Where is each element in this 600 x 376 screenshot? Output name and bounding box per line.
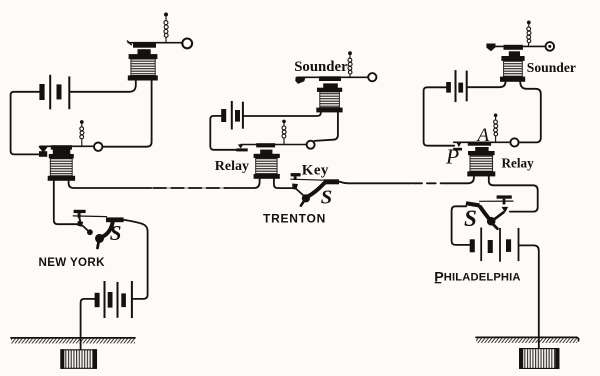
svg-text:NEW YORK: NEW YORK bbox=[39, 256, 106, 269]
battery B5 (Philadelphia main), cell plates bbox=[470, 228, 520, 262]
relay (New York) armature bar bbox=[51, 145, 72, 149]
key K3 (Philadelphia) knob bbox=[497, 195, 512, 198]
relay (Philadelphia) armature lever bbox=[454, 141, 511, 143]
relay (Trenton) armature bar bbox=[256, 143, 275, 147]
wire: Phila sounder left terminal to Phila local battery bbox=[468, 82, 506, 87]
svg-text:Relay: Relay bbox=[215, 159, 249, 174]
main line New York-Trenton faded underlay bbox=[152, 187, 225, 189]
key K1 (New York) lever heel wedge bbox=[79, 217, 80, 221]
sounder (Philadelphia) retractile-spring anchor dot bbox=[527, 21, 531, 25]
relay (New York) armature lever bbox=[40, 145, 94, 147]
relay (Philadelphia) retractile-spring anchor dot bbox=[494, 114, 498, 118]
switch S (Philadelphia) circuit-closer arm bbox=[480, 207, 489, 219]
sounder (Philadelphia) lever hinge bracket bbox=[486, 44, 495, 52]
svg-text:Sounder: Sounder bbox=[294, 59, 348, 75]
relay (Trenton) coil bottom flange bbox=[254, 174, 280, 179]
sounder (Trenton) coil bottom flange bbox=[316, 108, 342, 113]
wire: Trenton relay coil to Trenton key bbox=[274, 179, 293, 188]
sounder (New York) coil bottom flange bbox=[128, 75, 158, 80]
relay (Trenton) armature hinge post bbox=[236, 148, 247, 151]
sounder (Philadelphia) core pole piece bbox=[509, 51, 520, 56]
relay (Philadelphia) coil top flange bbox=[468, 151, 495, 155]
relay (Trenton) hinge triangle bbox=[238, 144, 244, 148]
sounder (Philadelphia) coil winding bbox=[504, 61, 523, 77]
relay (New York) hinge triangle bbox=[38, 146, 48, 152]
key K3 (Philadelphia) trunnion triangle bbox=[502, 207, 509, 213]
sounder (Trenton) core pole piece bbox=[323, 83, 338, 89]
wire: NY main battery to earth plate bbox=[81, 299, 95, 350]
battery B4 (Philadelphia local), cell plates bbox=[446, 70, 468, 102]
switch S (Philadelphia) contact block bbox=[466, 201, 480, 207]
switch S (New York) circuit-closer arm bbox=[101, 223, 113, 238]
svg-text:TRENTON: TRENTON bbox=[263, 211, 326, 225]
sounder (Philadelphia) armature bar bbox=[504, 45, 523, 50]
key K2 (Trenton) pivot dot bbox=[302, 194, 310, 202]
svg-text:S: S bbox=[464, 206, 477, 231]
sounder (New York) coil top flange bbox=[129, 54, 158, 59]
sounder (New York) armature lever bbox=[128, 42, 182, 44]
earth plate (New York) bbox=[61, 350, 97, 369]
main line Trenton-Philadelphia dashed span bbox=[413, 182, 446, 184]
relay (Trenton) coil winding bbox=[256, 158, 277, 174]
svg-text:Key: Key bbox=[302, 163, 329, 179]
wire: NY relay coil to main line east bbox=[69, 181, 153, 188]
key K2 (Trenton) knob bbox=[291, 173, 301, 176]
switch S (Trenton) circuit-closer arm bbox=[307, 183, 324, 197]
switch S (Trenton) contact block bbox=[324, 179, 339, 184]
wire: NY switch contact block to NY main battery bbox=[124, 220, 148, 299]
earth surface line (New York) bbox=[11, 337, 135, 339]
sounder (Trenton) coil winding bbox=[320, 92, 340, 108]
sounder (New York) armature bar bbox=[133, 43, 156, 48]
relay (New York) front contact ring bbox=[94, 143, 102, 151]
key K2 (Trenton) lever heel wedge bbox=[292, 184, 298, 190]
key K1 (New York) lever arm bbox=[83, 226, 88, 230]
relay (New York) retractile spring bbox=[80, 124, 84, 146]
wire: NY relay coil to NY key lever bbox=[54, 181, 78, 224]
battery B2 (New York main), cell plates bbox=[95, 281, 133, 318]
sounder (Philadelphia) coil bottom flange bbox=[500, 77, 525, 82]
key K2 (Trenton) lever arm bbox=[297, 189, 304, 195]
svg-text:P: P bbox=[445, 144, 459, 168]
earth surface hatching (New York) bbox=[11, 339, 135, 344]
relay (Philadelphia) armature bar bbox=[468, 142, 491, 146]
svg-text:P: P bbox=[434, 270, 443, 286]
relay (Trenton) front contact ring bbox=[307, 141, 315, 149]
key K3 (Philadelphia) lever bar from contact block bbox=[480, 200, 514, 202]
svg-text:HILADELPHIA: HILADELPHIA bbox=[444, 271, 521, 283]
earth surface hatching (Philadelphia) bbox=[476, 338, 577, 343]
key K3 (Philadelphia) lever arm bbox=[493, 212, 503, 220]
relay (Trenton) coil top flange bbox=[254, 154, 280, 158]
svg-text:S: S bbox=[110, 221, 122, 245]
sounder (Trenton) lever hinge bracket bbox=[295, 77, 305, 84]
wire: Phila relay coil to Phila key lever bbox=[489, 176, 538, 211]
wire: Trenton switch block to main line east bbox=[339, 182, 412, 184]
key K1 (New York) lever bar to contact block bbox=[73, 215, 106, 218]
relay (Philadelphia) retractile spring bbox=[494, 117, 498, 142]
wire: Phila local battery left plate to relay armature post bbox=[424, 87, 455, 145]
relay (Trenton) armature lever bbox=[241, 144, 306, 146]
sounder (Trenton) retractile spring bbox=[348, 55, 352, 77]
sounder (Philadelphia) coil top flange bbox=[501, 56, 524, 61]
relay (Philadelphia) hinge triangle bbox=[456, 142, 462, 148]
sounder (Trenton) armature lever bbox=[297, 76, 368, 78]
sounder (Trenton) coil top flange bbox=[317, 88, 342, 92]
wire: main line into Philadelphia relay coil bbox=[447, 176, 474, 183]
sounder (New York) coil winding bbox=[131, 59, 155, 75]
key K1 (New York) circuit-closer pivot dot bbox=[95, 234, 104, 243]
main line New York-Trenton dashed span bbox=[154, 187, 226, 189]
earth surface line (Philadelphia) bbox=[476, 337, 579, 341]
relay (Trenton) retractile-spring anchor dot bbox=[282, 120, 286, 124]
wire: Phila switch block to Phila main battery bbox=[452, 206, 470, 245]
sounder (Philadelphia) retractile spring bbox=[527, 24, 531, 46]
sounder (Trenton) armature bar bbox=[319, 76, 341, 81]
relay (New York) retractile-spring anchor dot bbox=[80, 120, 84, 124]
earth plate (Philadelphia) bbox=[520, 349, 559, 369]
relay (Philadelphia) core pole piece bbox=[475, 147, 488, 152]
sounder (Trenton) retractile-spring anchor dot bbox=[348, 51, 352, 55]
wire: Phila main battery to earth plate bbox=[519, 245, 538, 348]
wire: NY local battery left plate to relay armature post bbox=[11, 92, 40, 155]
relay (Philadelphia) front contact ring bbox=[510, 138, 518, 146]
key K2 (Trenton) lever bar to contact block bbox=[291, 179, 325, 180]
wire: Phila sounder right terminal down to relay front contact bbox=[519, 82, 541, 143]
relay (Trenton) retractile spring bbox=[282, 123, 286, 144]
key K3 (Philadelphia) pivot dot bbox=[487, 217, 496, 226]
relay (New York) armature hinge post bbox=[39, 151, 47, 157]
key K1 (New York) pivot support stem bbox=[98, 242, 99, 248]
sounder (Philadelphia) lever end ball contact bbox=[546, 42, 555, 51]
relay (New York) coil winding bbox=[50, 158, 72, 175]
wire: NY sounder left terminal to NY local battery + plate bbox=[70, 81, 136, 92]
svg-text:Sounder: Sounder bbox=[527, 60, 576, 75]
sounder (Trenton) lever end ball contact bbox=[368, 73, 376, 81]
key K3 (Philadelphia) pivot support stem bbox=[493, 225, 497, 229]
sounder (Philadelphia) armature lever bbox=[490, 45, 547, 47]
relay (Philadelphia) hinge post bar bbox=[453, 148, 462, 151]
key K1 (New York) knob bbox=[74, 210, 86, 213]
relay (Philadelphia) coil winding bbox=[470, 155, 493, 171]
sounder (New York) lever end ball contact bbox=[182, 39, 192, 49]
wire: Trenton sounder right terminal to relay front contact bbox=[314, 113, 338, 141]
relay (New York) yoke bar bbox=[53, 149, 71, 154]
sounder (New York) retractile-spring anchor dot bbox=[164, 13, 168, 17]
sounder (New York) core pole piece bbox=[138, 49, 151, 55]
key K2 (Trenton) pivot support stem bbox=[301, 201, 304, 205]
label underline below P of PHILADELPHIA bbox=[435, 282, 442, 283]
relay (Philadelphia) coil bottom flange bbox=[467, 171, 495, 176]
wire: NY sounder right terminal down to relay front contact bbox=[103, 81, 152, 147]
battery B3 (Trenton local), cell plates bbox=[221, 101, 244, 130]
wire: Trenton sounder left terminal to Trenton battery bbox=[244, 113, 321, 116]
relay (Trenton) core pole piece bbox=[260, 150, 272, 155]
svg-text:S: S bbox=[321, 187, 332, 209]
relay (New York) coil bottom flange bbox=[48, 176, 75, 181]
relay (New York) coil top flange bbox=[49, 154, 74, 158]
sounder (Philadelphia) lever ball center dot bbox=[548, 45, 551, 48]
sounder (New York) retractile spring bbox=[164, 17, 168, 43]
switch S (New York) contact block bbox=[106, 217, 124, 222]
battery B1 (New York local), cell plates bbox=[39, 75, 70, 110]
key K1 (New York) lever contact dot bbox=[87, 229, 93, 235]
wire: Trenton battery left plate to relay armature post bbox=[210, 116, 236, 150]
svg-text:Relay: Relay bbox=[502, 156, 535, 171]
sounder (New York) lever hinge tick bbox=[127, 41, 131, 45]
wire: main line into Trenton relay coil bbox=[226, 179, 260, 189]
